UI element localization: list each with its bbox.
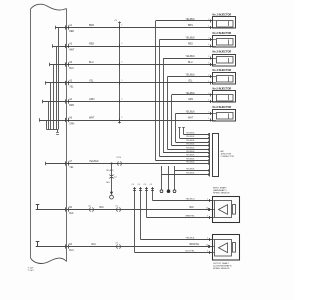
svg-text:BRN: BRN: [89, 24, 94, 27]
svg-text:BLK: BLK: [69, 213, 74, 215]
svg-text:YEL: YEL: [89, 80, 94, 83]
svg-text:YEL/BLK: YEL/BLK: [186, 162, 195, 164]
svg-text:No.3 INJECTOR: No.3 INJECTOR: [213, 51, 232, 54]
svg-text:YEL: YEL: [69, 86, 74, 88]
svg-text:YEL/BLK: YEL/BLK: [186, 169, 195, 171]
svg-text:C4: C4: [144, 184, 146, 186]
svg-text:YEL/BLK: YEL/BLK: [186, 56, 196, 58]
svg-text:BLK: BLK: [100, 207, 105, 209]
svg-text:WHT: WHT: [69, 49, 75, 51]
svg-text:YEL/BLK: YEL/BLK: [186, 237, 195, 239]
svg-text:YEL/BLU: YEL/BLU: [186, 198, 195, 200]
svg-text:GRN: GRN: [89, 98, 95, 101]
svg-text:YEL/BLK: YEL/BLK: [186, 148, 195, 150]
svg-text:SPEED SENSOR: SPEED SENSOR: [213, 193, 230, 195]
svg-text:YEL/BLK: YEL/BLK: [186, 173, 195, 175]
svg-text:SPEED SENSOR: SPEED SENSOR: [213, 268, 230, 270]
svg-text:RED: RED: [89, 43, 94, 46]
svg-text:BLU: BLU: [89, 61, 94, 64]
svg-text:YEL/BLK: YEL/BLK: [186, 133, 195, 135]
svg-text:YEL: YEL: [69, 167, 74, 169]
svg-text:*2: M/T: *2: M/T: [28, 270, 35, 272]
svg-text:WHT: WHT: [188, 118, 194, 120]
svg-text:GRN: GRN: [188, 99, 193, 101]
svg-text:BLU: BLU: [69, 68, 74, 70]
svg-text:BRN/YEL: BRN/YEL: [190, 244, 201, 246]
svg-text:BLU: BLU: [188, 62, 193, 64]
svg-text:YEL/BLK: YEL/BLK: [186, 37, 196, 39]
svg-text:GRN: GRN: [69, 123, 74, 125]
svg-text:YEL/BLK: YEL/BLK: [186, 19, 196, 21]
svg-text:BLK: BLK: [190, 207, 195, 209]
svg-text:BRN: BRN: [69, 105, 74, 107]
svg-text:CONNECTOR: CONNECTOR: [221, 156, 235, 158]
svg-text:YEL: YEL: [188, 81, 193, 83]
svg-text:No.4 INJECTOR: No.4 INJECTOR: [213, 69, 232, 72]
svg-text:WHT: WHT: [89, 117, 95, 120]
svg-text:YEL/BLK: YEL/BLK: [186, 140, 195, 142]
svg-text:YEL/BLK: YEL/BLK: [186, 136, 195, 138]
svg-text:YEL/BLK: YEL/BLK: [186, 155, 195, 157]
svg-text:YEL/BLK: YEL/BLK: [186, 111, 196, 113]
svg-text:YEL/BLK: YEL/BLK: [186, 151, 195, 153]
svg-text:C4: C4: [132, 184, 134, 186]
svg-text:BLK: BLK: [106, 182, 110, 184]
svg-text:No.6 INJECTOR: No.6 INJECTOR: [213, 106, 232, 109]
svg-text:YEL/BLK: YEL/BLK: [89, 160, 99, 163]
svg-text:RED: RED: [69, 31, 74, 33]
svg-text:YEL/BLK: YEL/BLK: [106, 170, 114, 172]
svg-text:RED: RED: [188, 44, 193, 46]
svg-text:YEL/BLK: YEL/BLK: [186, 159, 195, 161]
svg-text:C4: C4: [150, 184, 152, 186]
svg-text:No.2 INJECTOR: No.2 INJECTOR: [213, 32, 232, 35]
svg-text:C4: C4: [138, 184, 140, 186]
svg-text:YEL/BLK: YEL/BLK: [186, 74, 196, 76]
svg-text:BRN/YEL: BRN/YEL: [186, 215, 196, 217]
svg-text:BRN: BRN: [188, 25, 193, 27]
svg-text:BLU: BLU: [92, 244, 97, 246]
svg-text:YEL/BLK: YEL/BLK: [186, 93, 196, 95]
svg-text:BLU/YEL: BLU/YEL: [186, 250, 196, 252]
svg-text:YEL/BLK: YEL/BLK: [186, 144, 195, 146]
svg-text:BLU: BLU: [69, 250, 74, 252]
